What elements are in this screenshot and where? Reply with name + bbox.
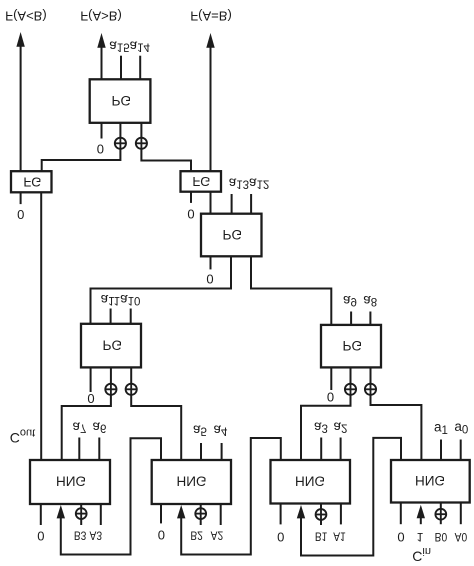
wire PG1 to FG1 <box>42 149 121 171</box>
svg-text:FG: FG <box>23 174 41 189</box>
label a3 <box>314 419 328 434</box>
gate HNG2 <box>152 460 231 504</box>
wire HNG3 pin4 stub <box>340 504 342 524</box>
wire HNG4 pin4 stub <box>460 503 462 525</box>
svg-text:PG: PG <box>112 93 132 108</box>
xor node under PG4 right <box>365 367 376 395</box>
label 0 under PG3 <box>87 391 94 406</box>
wire a6 stub <box>98 438 100 461</box>
wire PG2 to PG4 <box>251 256 331 325</box>
label a9 <box>343 293 357 308</box>
svg-text:1: 1 <box>417 530 424 544</box>
label 0 under FG1 <box>17 207 24 222</box>
svg-text:F(A>B): F(A>B) <box>80 9 122 24</box>
label 0 under HNG1 <box>37 528 44 543</box>
svg-text:0: 0 <box>277 529 284 544</box>
svg-text:A2: A2 <box>211 529 224 543</box>
label a0 <box>454 419 468 437</box>
label F(A=B) <box>190 9 232 24</box>
wire PG3 pin1 stub <box>90 367 92 392</box>
wire a3 stub <box>320 438 322 461</box>
wire HNG1 pin1 stub <box>40 504 42 525</box>
label 0 under HNG2 <box>158 527 165 542</box>
svg-text:a5: a5 <box>193 422 207 437</box>
wire HNG2 pin4 stub <box>220 504 222 525</box>
wire FG1 pin1 stub <box>20 192 22 204</box>
label a2 <box>334 419 348 434</box>
label B0 <box>435 530 448 544</box>
wire Cout FG1 to HNG1 <box>40 192 42 460</box>
gate HNG3 <box>271 460 351 504</box>
xor node HNG1 B3 input <box>76 504 87 525</box>
wire a12 stub <box>250 194 252 214</box>
svg-text:HNG: HNG <box>56 474 86 489</box>
label a7 <box>72 419 86 434</box>
svg-text:a8: a8 <box>363 293 377 308</box>
svg-text:A0: A0 <box>455 530 468 544</box>
wire a8 stub <box>369 312 371 325</box>
svg-text:PG: PG <box>223 227 243 242</box>
gate FG2 <box>181 171 222 192</box>
wire a9 stub <box>350 312 352 325</box>
label F(A<B) <box>5 9 47 24</box>
wire carry HNG3 to HNG2 <box>177 438 281 555</box>
svg-text:0: 0 <box>397 529 404 544</box>
svg-text:HNG: HNG <box>295 474 325 489</box>
svg-text:PG: PG <box>343 338 363 353</box>
wire PG4 pin1 stub <box>330 367 332 390</box>
label 0 under PG1 <box>97 141 104 156</box>
svg-text:0: 0 <box>17 207 24 222</box>
gate PG3 <box>81 324 141 368</box>
wire PG2 to PG3 <box>91 256 232 324</box>
label Cin <box>412 545 431 564</box>
wire PG4 to HNG3 <box>301 395 351 460</box>
xor node under PG3 right <box>126 367 137 395</box>
svg-text:PG: PG <box>103 338 123 353</box>
label A0 <box>455 530 468 544</box>
svg-text:0: 0 <box>327 389 334 404</box>
xor node HNG3 B1 input <box>316 504 327 525</box>
label a6 <box>92 419 106 434</box>
svg-text:a4: a4 <box>214 422 229 437</box>
gate FG1 <box>11 171 52 192</box>
output arrow F(A>B) <box>97 33 105 79</box>
svg-text:0: 0 <box>97 141 104 156</box>
label 0 under PG2 <box>206 271 213 286</box>
svg-text:0: 0 <box>206 271 213 286</box>
xor node HNG2 B2 input <box>195 504 206 525</box>
label a15 a14 <box>109 38 150 53</box>
svg-text:HNG: HNG <box>177 474 207 489</box>
svg-text:0: 0 <box>37 528 44 543</box>
svg-text:HNG: HNG <box>415 473 445 488</box>
xor node HNG4 B0 input <box>435 503 446 525</box>
svg-text:a11a10: a11a10 <box>101 292 141 307</box>
label A1 <box>333 530 346 544</box>
svg-text:F(A<B): F(A<B) <box>5 9 47 24</box>
wire PG1 pin1 stub <box>101 123 103 139</box>
svg-text:B3: B3 <box>74 529 87 543</box>
wire a1 stub <box>440 440 442 461</box>
wire PG3 to HNG2 <box>131 395 181 460</box>
wire a15 stub <box>120 56 122 80</box>
wire a2 stub <box>340 438 342 461</box>
xor node under PG1 right <box>136 123 147 149</box>
wire a0 stub <box>460 440 462 461</box>
wire PG3 to HNG1 <box>62 395 111 460</box>
wire carry HNG2 to HNG1 <box>57 438 161 554</box>
label B3 <box>74 529 87 543</box>
gate PG4 <box>321 325 381 368</box>
svg-text:B2: B2 <box>190 529 203 543</box>
wire a7 stub <box>78 438 80 461</box>
label 0 under PG4 <box>327 389 334 404</box>
svg-text:a15a14: a15a14 <box>109 38 150 53</box>
wire a4 stub <box>221 443 223 460</box>
input arrow Cin <box>417 505 425 525</box>
label A3 <box>90 529 103 543</box>
svg-text:B1: B1 <box>315 530 328 544</box>
label a8 <box>363 293 377 308</box>
svg-text:A1: A1 <box>333 530 346 544</box>
wire a11 stub <box>110 309 112 324</box>
label 1 on Cin <box>417 530 424 544</box>
label a5 <box>193 422 207 437</box>
wire HNG1 pin4 stub <box>100 504 102 525</box>
svg-text:FG: FG <box>192 174 210 189</box>
svg-text:0: 0 <box>87 391 94 406</box>
label a4 <box>214 422 229 437</box>
wire a10 stub <box>130 309 132 324</box>
label F(A>B) <box>80 9 122 24</box>
wire FG2 pin1 stub <box>190 192 192 203</box>
svg-text:a13a12: a13a12 <box>229 175 270 190</box>
output arrow F(A<B) <box>16 32 24 171</box>
wire HNG4 pin1 stub <box>400 503 402 525</box>
xor node under PG4 left <box>345 367 356 395</box>
svg-text:a2: a2 <box>334 419 348 434</box>
label 0 under FG2 <box>187 207 194 222</box>
svg-text:a3: a3 <box>314 419 328 434</box>
gate PG2 <box>201 214 262 257</box>
wire a5 stub <box>200 443 202 460</box>
label a1 <box>434 420 448 438</box>
wire PG2 pin1 stub <box>210 256 212 269</box>
label 0 under HNG3 <box>277 529 284 544</box>
svg-text:a9: a9 <box>343 293 357 308</box>
label A2 <box>211 529 224 543</box>
label B1 <box>315 530 328 544</box>
svg-text:A3: A3 <box>90 529 103 543</box>
gate PG1 <box>90 79 151 123</box>
label Cout <box>10 427 35 446</box>
wire HNG2 pin1 stub <box>160 504 162 523</box>
svg-text:0: 0 <box>187 207 194 222</box>
wire a13 stub <box>231 194 233 214</box>
svg-text:a7: a7 <box>72 419 86 434</box>
wire PG4 to HNG4 <box>371 395 422 460</box>
output arrow F(A=B) <box>206 33 214 171</box>
xor node under PG3 left <box>105 367 116 395</box>
gate HNG1 <box>30 460 110 504</box>
wire HNG3 pin1 stub <box>280 504 282 524</box>
xor node under PG1 left <box>115 123 126 149</box>
label 0 under HNG4 <box>397 529 404 544</box>
svg-text:a6: a6 <box>92 419 106 434</box>
wire carry HNG4 to HNG3 <box>297 438 401 556</box>
label a13 a12 <box>229 175 270 190</box>
svg-text:F(A=B): F(A=B) <box>190 9 232 24</box>
svg-text:B0: B0 <box>435 530 448 544</box>
wire PG1 to FG2 <box>141 149 191 171</box>
gate HNG4 <box>391 460 470 503</box>
wire FG2 to PG2 <box>210 192 212 214</box>
label a11 a10 <box>101 292 141 307</box>
label B2 <box>190 529 203 543</box>
svg-text:0: 0 <box>158 527 165 542</box>
wire a14 stub <box>139 56 141 80</box>
